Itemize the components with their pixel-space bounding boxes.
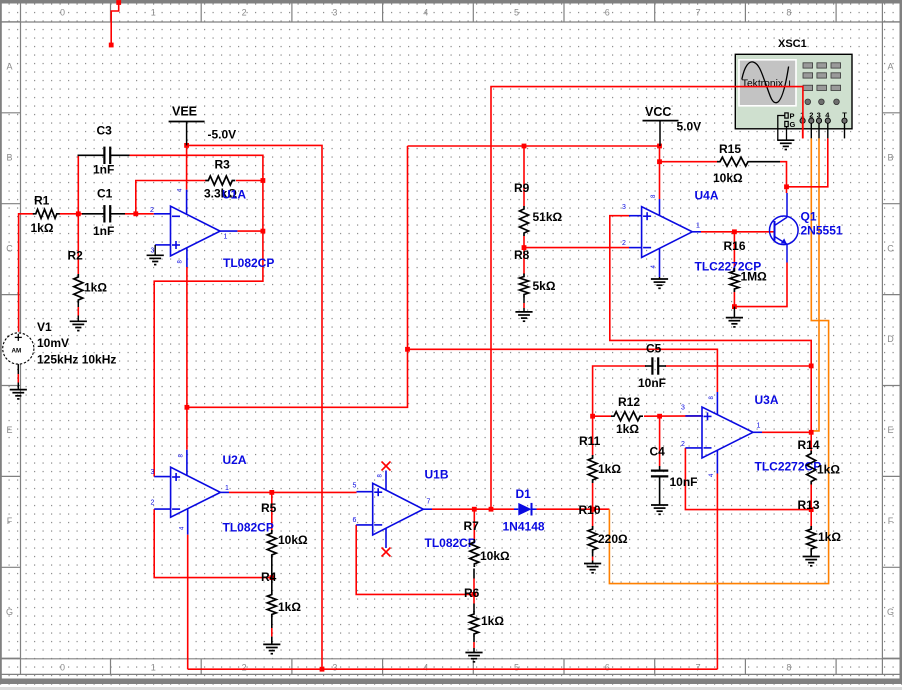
svg-text:7: 7	[696, 663, 701, 673]
op-amp U1B	[353, 468, 476, 551]
wire Q1 collector lead	[786, 187, 788, 193]
oscilloscope XSC1	[735, 38, 852, 138]
wire R10 top lead	[592, 509, 594, 526]
svg-text:C: C	[6, 243, 13, 253]
svg-text:F: F	[7, 516, 13, 526]
wire R12 left lead	[593, 415, 612, 417]
resistor R15	[713, 142, 751, 185]
junction node A	[76, 211, 81, 216]
capacitor C3	[78, 124, 130, 177]
op-amp U2A	[151, 450, 274, 535]
transistor Q1	[770, 193, 843, 263]
resistor R8	[514, 248, 556, 312]
svg-text:R7: R7	[464, 519, 480, 533]
svg-text:10kΩ: 10kΩ	[713, 171, 743, 185]
ground R4	[263, 644, 280, 653]
svg-text:1: 1	[151, 8, 156, 18]
op-amp U4A	[622, 189, 761, 278]
svg-text:2: 2	[150, 207, 154, 214]
svg-text:10kΩ: 10kΩ	[480, 549, 510, 563]
svg-text:R6: R6	[464, 586, 480, 600]
svg-text:C: C	[887, 243, 894, 253]
svg-text:8: 8	[786, 8, 791, 18]
svg-text:R3: R3	[215, 158, 231, 172]
junction R5 top	[269, 490, 274, 495]
svg-text:1kΩ: 1kΩ	[278, 600, 301, 614]
svg-text:R8: R8	[514, 248, 530, 262]
wire U2A pin2 to R4 R5 node	[154, 509, 272, 577]
wire scope ch4 to Q1 collector	[787, 138, 828, 186]
wire top stub net	[111, 3, 119, 46]
svg-text:6: 6	[605, 663, 610, 673]
wire U2A output to U1B pin5	[229, 491, 357, 493]
wire R12 right to U3A pin3	[644, 415, 703, 417]
svg-text:VCC: VCC	[645, 105, 671, 119]
svg-text:51kΩ: 51kΩ	[533, 210, 563, 224]
svg-text:1kΩ: 1kΩ	[818, 530, 841, 544]
source V1	[3, 320, 117, 390]
svg-text:D: D	[887, 334, 894, 344]
capacitor C1	[82, 187, 125, 238]
junction VCC stem	[657, 144, 662, 149]
svg-text:1: 1	[696, 223, 700, 230]
wire R6 top lead	[473, 594, 475, 611]
wire D1 to R10 node	[537, 508, 610, 510]
wire C1 to U1A pin2	[125, 213, 154, 215]
junction R6 R7 node	[472, 592, 477, 597]
svg-text:4: 4	[423, 8, 428, 18]
wire R16 bottom lead	[733, 292, 735, 307]
junction R16 bottom	[732, 304, 737, 309]
wire VEE bottom bus	[188, 668, 718, 670]
junction R16 top	[732, 229, 737, 234]
junction R7 top	[472, 507, 477, 512]
svg-text:10nF: 10nF	[638, 376, 666, 390]
resistor R1	[31, 194, 60, 236]
junction R12 left node	[590, 414, 595, 419]
svg-text:C4: C4	[650, 445, 666, 459]
svg-text:R9: R9	[514, 181, 530, 195]
svg-text:R13: R13	[798, 498, 820, 512]
svg-text:7: 7	[427, 499, 431, 506]
wire R3 right lead	[236, 180, 263, 182]
svg-text:U3A: U3A	[755, 393, 779, 407]
ground R8	[515, 312, 532, 321]
resistor R16	[724, 239, 768, 292]
junction U3A output node	[809, 430, 814, 435]
svg-text:C3: C3	[97, 124, 113, 138]
svg-text:R14: R14	[798, 438, 820, 452]
svg-text:3: 3	[622, 204, 626, 211]
svg-text:V1: V1	[37, 320, 52, 334]
resistor R14	[798, 438, 841, 484]
svg-text:0: 0	[60, 663, 65, 673]
svg-text:125kHz 10kHz: 125kHz 10kHz	[37, 353, 116, 367]
ground R10	[584, 564, 601, 573]
svg-text:D1: D1	[516, 487, 532, 501]
wire C5 right branch	[665, 365, 811, 367]
wire U1A pin4 to VEE	[186, 145, 188, 189]
junction R12 right node	[657, 414, 662, 419]
no-connect U1B pin8	[382, 462, 391, 471]
svg-text:3: 3	[332, 8, 337, 18]
svg-text:B: B	[6, 152, 12, 162]
junction R4 R5 node	[269, 575, 274, 580]
ground scope	[777, 140, 794, 149]
svg-text:A: A	[6, 62, 12, 72]
wire R16 top lead	[733, 232, 735, 268]
junction VCC mid	[405, 347, 410, 352]
wire scope P G to ground	[778, 116, 787, 141]
svg-text:1: 1	[151, 663, 156, 673]
wire U4A pin3 feedback	[610, 216, 811, 433]
wire VCC mid branch to U3A pin8	[408, 349, 718, 392]
svg-text:Tektronix: Tektronix	[742, 78, 784, 89]
wire R9 bottom lead	[523, 236, 525, 248]
wire R14 top lead	[810, 432, 812, 450]
svg-text:U4A: U4A	[695, 189, 719, 203]
wire VCC stem to pin8 node	[659, 146, 661, 162]
wire U4A pin2 to divider	[524, 247, 629, 249]
svg-text:U1B: U1B	[425, 468, 449, 482]
wire U4A output to Q1 base	[701, 231, 770, 233]
svg-text:2N5551: 2N5551	[801, 224, 843, 238]
svg-text:-5.0V: -5.0V	[208, 128, 237, 142]
svg-text:U1A: U1A	[222, 188, 246, 202]
svg-text:AM: AM	[12, 348, 22, 355]
junction VEE bus	[320, 667, 325, 672]
junction R10 node	[590, 507, 595, 512]
wire R11 top lead	[592, 416, 594, 456]
svg-text:TL082CP: TL082CP	[223, 256, 274, 270]
wire V1 to R1	[19, 214, 34, 332]
resistor R10	[579, 503, 629, 564]
ground V1	[10, 390, 27, 399]
wire scope ch3 to R14 node	[811, 138, 819, 431]
svg-text:6: 6	[605, 8, 610, 18]
wire C3 right to output node	[130, 155, 263, 231]
wire U3A pin2 to R13 node	[685, 448, 811, 510]
svg-text:5: 5	[353, 483, 357, 490]
op-amp U1A	[150, 188, 274, 271]
svg-text:5.0V: 5.0V	[677, 120, 702, 134]
svg-text:1nF: 1nF	[93, 224, 114, 238]
svg-text:1kΩ: 1kΩ	[616, 422, 639, 436]
svg-text:G: G	[6, 607, 13, 617]
svg-text:5: 5	[514, 663, 519, 673]
svg-text:10nF: 10nF	[670, 475, 698, 489]
wire R1 to C1	[60, 213, 84, 215]
resistor R7	[464, 519, 511, 567]
svg-text:1: 1	[224, 234, 228, 241]
svg-text:VEE: VEE	[172, 105, 197, 119]
junction R13 R14 node	[809, 507, 814, 512]
svg-text:1: 1	[757, 423, 761, 430]
svg-text:Q1: Q1	[801, 210, 817, 224]
svg-text:E: E	[887, 425, 893, 435]
wire R15 left lead	[660, 161, 719, 163]
junction VEE	[184, 143, 189, 148]
ground R6	[465, 653, 482, 662]
svg-text:R12: R12	[618, 395, 640, 409]
junction U4A supply node	[657, 159, 662, 164]
power VCC symbol	[643, 105, 702, 146]
wire U3A pin4 to VEE bus	[716, 474, 718, 670]
ground U4A	[651, 277, 668, 288]
svg-text:1MΩ: 1MΩ	[741, 270, 768, 284]
svg-text:R5: R5	[261, 501, 277, 515]
resistor R9	[514, 181, 563, 236]
svg-text:F: F	[888, 516, 894, 526]
wire U4A pin8 supply	[659, 162, 661, 199]
svg-text:R15: R15	[719, 142, 741, 156]
power VEE symbol	[169, 105, 237, 146]
resistor R11	[579, 434, 621, 483]
wire U2A pin4 to VEE bus	[187, 535, 189, 670]
svg-text:2: 2	[151, 500, 155, 507]
capacitor C5	[638, 342, 666, 391]
wire VEE rail	[187, 145, 322, 669]
svg-text:XSC1: XSC1	[778, 38, 807, 50]
svg-text:R4: R4	[261, 570, 277, 584]
svg-text:5kΩ: 5kΩ	[533, 279, 556, 293]
wire U1A pin8 U2A pin8 supply	[186, 267, 188, 450]
junction C5 right tap	[809, 364, 814, 369]
svg-text:TL082CP: TL082CP	[223, 521, 274, 535]
wire C5 left branch	[593, 366, 646, 416]
ground U1A plus input	[147, 245, 164, 265]
wire R5 top lead	[271, 492, 273, 530]
svg-text:2: 2	[681, 441, 685, 448]
junction divider node	[522, 245, 527, 250]
svg-text:A: A	[887, 62, 893, 72]
resistor R2	[68, 249, 108, 322]
ground R16	[726, 307, 743, 327]
wire R13 top lead	[810, 510, 812, 527]
wire C4 top lead	[659, 416, 661, 470]
svg-text:4: 4	[423, 663, 428, 673]
svg-text:R16: R16	[724, 239, 746, 253]
svg-text:2: 2	[242, 8, 247, 18]
capacitor C4	[650, 445, 698, 506]
svg-text:3: 3	[681, 405, 685, 412]
wire U1B pin6 to R6 R7 node	[356, 525, 474, 595]
svg-text:C5: C5	[646, 342, 662, 356]
wire R7 bottom lead	[473, 569, 475, 595]
svg-text:U2A: U2A	[223, 453, 247, 467]
svg-text:P: P	[790, 112, 795, 121]
wire scope ch2 to R10 node	[609, 138, 828, 583]
resistor R5	[261, 501, 308, 578]
svg-text:10mV: 10mV	[37, 336, 69, 350]
junction VCC R9	[522, 144, 527, 149]
junction scope tap	[489, 507, 494, 512]
junction pin2 node	[133, 211, 138, 216]
junction R3 right	[261, 178, 266, 183]
svg-text:1: 1	[225, 485, 229, 492]
svg-text:C1: C1	[97, 187, 113, 201]
wire collector to R15 right	[751, 162, 787, 187]
wire node A to C3	[77, 155, 79, 214]
svg-text:0: 0	[60, 8, 65, 18]
svg-text:8: 8	[786, 663, 791, 673]
svg-text:1kΩ: 1kΩ	[481, 614, 504, 628]
svg-text:7: 7	[696, 8, 701, 18]
svg-text:3: 3	[151, 469, 155, 476]
wire U1B output to scope ch1	[491, 87, 803, 510]
svg-text:5: 5	[514, 8, 519, 18]
ground C4	[651, 505, 668, 514]
svg-text:1nF: 1nF	[93, 163, 114, 177]
resistor R13	[798, 498, 842, 557]
wire U3A output	[762, 431, 811, 433]
wire U1B output	[432, 508, 514, 510]
resistor R4	[261, 570, 301, 644]
no-connect U1B pin4	[382, 548, 391, 557]
op-amp U3A	[681, 392, 821, 477]
svg-text:1kΩ: 1kΩ	[31, 221, 54, 235]
resistor R6	[464, 586, 504, 653]
svg-text:2: 2	[242, 663, 247, 673]
wire VCC rail	[408, 145, 660, 147]
svg-text:2: 2	[622, 240, 626, 247]
junction Q1 collector	[784, 184, 789, 189]
ground R2	[70, 321, 87, 330]
resistor R12	[611, 395, 643, 436]
junction top stub	[109, 0, 121, 47]
junction U1A output	[261, 229, 266, 234]
svg-text:E: E	[6, 425, 12, 435]
svg-text:B: B	[887, 152, 893, 162]
svg-text:G: G	[790, 120, 796, 129]
wire pin2 node to R3 left	[136, 181, 206, 214]
svg-text:R11: R11	[579, 434, 601, 448]
resistor R3	[204, 158, 237, 201]
svg-text:R2: R2	[68, 249, 84, 263]
wire VCC down left branch	[187, 146, 408, 407]
wire output to U2A pin3	[154, 231, 263, 477]
wire node A to R2	[77, 214, 79, 274]
wire R9 top lead	[523, 146, 525, 206]
wire R11 bottom lead	[592, 483, 594, 509]
junction supply left	[185, 405, 190, 410]
svg-text:3: 3	[332, 663, 337, 673]
svg-text:3: 3	[151, 248, 155, 255]
wire Q1 emitter to R16 bottom	[734, 263, 787, 307]
svg-text:6: 6	[353, 517, 357, 524]
svg-text:1N4148: 1N4148	[503, 520, 545, 534]
wire R8 top lead	[523, 248, 525, 274]
svg-text:1kΩ: 1kΩ	[84, 281, 107, 295]
svg-text:G: G	[887, 607, 894, 617]
svg-text:1kΩ: 1kΩ	[817, 463, 840, 477]
wire R14 bottom lead	[810, 485, 812, 510]
wire U1A output	[237, 230, 263, 232]
svg-text:R1: R1	[34, 194, 50, 208]
svg-text:TL082CP: TL082CP	[425, 536, 476, 550]
svg-text:R10: R10	[579, 503, 601, 517]
svg-text:1kΩ: 1kΩ	[598, 462, 621, 476]
wire R7 top lead	[473, 509, 475, 540]
ground R13	[803, 557, 820, 566]
svg-text:10kΩ: 10kΩ	[278, 533, 308, 547]
svg-text:220Ω: 220Ω	[598, 532, 628, 546]
diode D1	[503, 487, 545, 534]
